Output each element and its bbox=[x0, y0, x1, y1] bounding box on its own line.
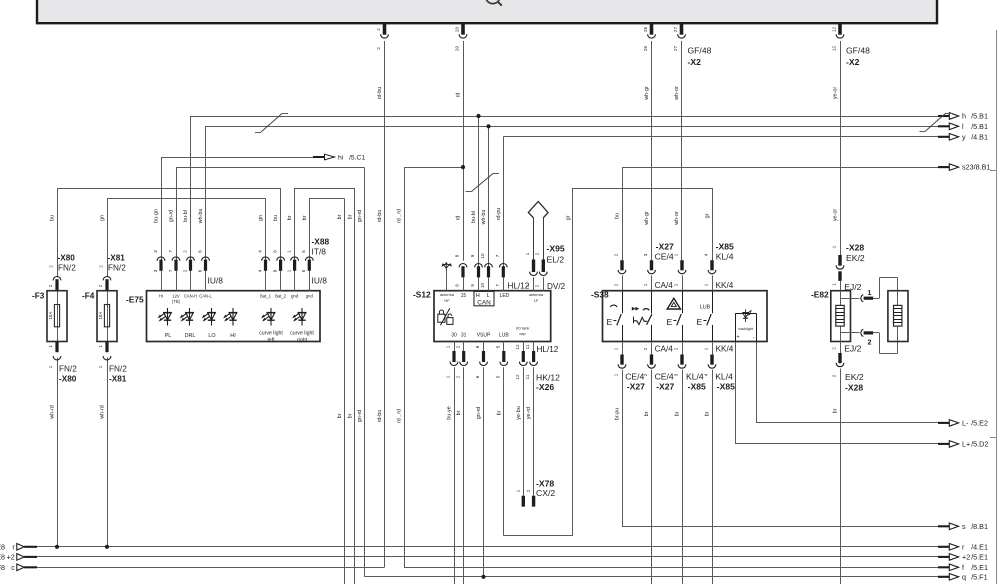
svg-text:wh-or: wh-or bbox=[674, 86, 680, 101]
svg-text:backlight: backlight bbox=[738, 327, 753, 331]
svg-text:-X85: -X85 bbox=[717, 381, 735, 391]
svg-text:-X95: -X95 bbox=[547, 244, 565, 254]
svg-text:7: 7 bbox=[495, 284, 500, 287]
svg-text:f: f bbox=[962, 563, 964, 572]
svg-text:27: 27 bbox=[673, 46, 678, 52]
svg-text:8: 8 bbox=[272, 250, 277, 253]
svg-text:h: h bbox=[962, 112, 966, 121]
svg-text:-X28: -X28 bbox=[845, 382, 863, 392]
svg-text:8: 8 bbox=[455, 254, 460, 257]
svg-text:br: br bbox=[347, 413, 353, 418]
svg-text:-X28: -X28 bbox=[846, 242, 864, 252]
svg-text:CA/4: CA/4 bbox=[655, 344, 674, 353]
svg-text:gn: gn bbox=[100, 215, 106, 221]
svg-text:gnd: gnd bbox=[291, 293, 299, 298]
svg-text:gnd: gnd bbox=[306, 293, 314, 298]
svg-text:1: 1 bbox=[868, 290, 872, 297]
svg-text:3: 3 bbox=[153, 250, 158, 253]
svg-text:10A: 10A bbox=[48, 312, 53, 320]
svg-text:/5.C1: /5.C1 bbox=[349, 155, 365, 162]
svg-text:br: br bbox=[337, 413, 343, 418]
svg-text:11: 11 bbox=[525, 344, 530, 349]
svg-text:30: 30 bbox=[451, 333, 457, 339]
svg-text:1: 1 bbox=[613, 373, 618, 376]
svg-text:1: 1 bbox=[673, 253, 678, 256]
svg-text:4: 4 bbox=[703, 253, 708, 256]
svg-text:-X80: -X80 bbox=[59, 375, 77, 384]
svg-text:bu-ye: bu-ye bbox=[447, 406, 453, 420]
svg-text:right: right bbox=[297, 338, 308, 344]
svg-text:12: 12 bbox=[515, 344, 520, 350]
svg-text:ye-bu: ye-bu bbox=[516, 406, 522, 420]
svg-text:CE/4: CE/4 bbox=[655, 372, 674, 382]
svg-text:gn-rd: gn-rd bbox=[169, 210, 175, 223]
svg-text:2: 2 bbox=[182, 269, 187, 272]
svg-text:IU/8: IU/8 bbox=[312, 276, 328, 286]
svg-text:L-: L- bbox=[962, 419, 969, 428]
svg-text:L: L bbox=[487, 293, 490, 299]
svg-text:DV/2: DV/2 bbox=[547, 282, 566, 291]
svg-text:2: 2 bbox=[182, 250, 187, 253]
svg-text:-E82: -E82 bbox=[811, 290, 829, 300]
svg-text:2: 2 bbox=[99, 265, 104, 268]
svg-text:/5.E2: /5.E2 bbox=[971, 419, 988, 428]
svg-text:hi: hi bbox=[338, 155, 344, 162]
svg-text:bu-bl: bu-bl bbox=[183, 210, 189, 222]
svg-text:HI: HI bbox=[230, 333, 235, 339]
svg-text:1: 1 bbox=[98, 365, 103, 368]
svg-text:/4.E1: /4.E1 bbox=[971, 542, 988, 551]
svg-text:2: 2 bbox=[98, 284, 103, 287]
svg-text:12: 12 bbox=[831, 46, 836, 52]
svg-text:/5.E1: /5.E1 bbox=[971, 563, 988, 572]
svg-text:Bat_2: Bat_2 bbox=[275, 293, 287, 298]
svg-text:EL/2: EL/2 bbox=[547, 255, 565, 265]
svg-text:5: 5 bbox=[301, 250, 306, 253]
svg-text:bu-gn: bu-gn bbox=[154, 209, 160, 223]
svg-text:-X2: -X2 bbox=[846, 57, 860, 67]
svg-text:2: 2 bbox=[673, 347, 678, 350]
svg-text:ye-rd: ye-rd bbox=[526, 407, 532, 419]
svg-text:1: 1 bbox=[703, 347, 708, 350]
svg-text:1: 1 bbox=[446, 375, 451, 378]
svg-text:1: 1 bbox=[643, 283, 648, 286]
svg-text:CE/4: CE/4 bbox=[625, 372, 644, 382]
svg-text:2: 2 bbox=[535, 284, 540, 287]
svg-text:-E75: -E75 bbox=[126, 294, 144, 304]
svg-text:2: 2 bbox=[455, 375, 460, 378]
svg-text:2: 2 bbox=[48, 284, 53, 287]
svg-text:H: H bbox=[476, 293, 480, 299]
svg-text:HI: HI bbox=[159, 293, 163, 298]
svg-text:curve light: curve light bbox=[290, 331, 314, 337]
svg-text:CE/4: CE/4 bbox=[655, 252, 674, 262]
svg-text:rd-bu: rd-bu bbox=[377, 87, 383, 100]
svg-text:+: + bbox=[736, 335, 739, 341]
svg-text:rd-bu: rd-bu bbox=[377, 410, 383, 423]
svg-text:L+: L+ bbox=[962, 440, 970, 449]
svg-text:6: 6 bbox=[197, 269, 202, 272]
svg-text:y: y bbox=[962, 132, 966, 141]
svg-text:2: 2 bbox=[832, 374, 837, 377]
svg-text:1: 1 bbox=[832, 283, 837, 286]
svg-text:br: br bbox=[287, 215, 293, 220]
svg-text:1: 1 bbox=[704, 283, 709, 286]
svg-text:2: 2 bbox=[535, 252, 540, 255]
svg-text:s23/8.B1: s23/8.B1 bbox=[962, 163, 990, 172]
svg-text:-X81: -X81 bbox=[109, 375, 127, 384]
svg-text:5: 5 bbox=[495, 345, 500, 348]
svg-text:l: l bbox=[962, 122, 964, 131]
svg-text:EJ/2: EJ/2 bbox=[844, 343, 861, 353]
svg-text:/4.B1: /4.B1 bbox=[971, 132, 988, 141]
svg-text:br: br bbox=[705, 411, 711, 416]
svg-text:/5.B1: /5.B1 bbox=[971, 112, 988, 121]
svg-text:wh-gr: wh-gr bbox=[644, 86, 650, 101]
svg-text:CX/2: CX/2 bbox=[536, 488, 555, 498]
svg-text:FN/2: FN/2 bbox=[58, 264, 76, 273]
svg-text:br-pu: br-pu bbox=[615, 408, 621, 421]
svg-text:2: 2 bbox=[832, 347, 837, 350]
svg-text:KL/4: KL/4 bbox=[715, 372, 733, 382]
svg-text:E8: E8 bbox=[0, 553, 5, 562]
svg-text:LO: LO bbox=[208, 333, 215, 339]
svg-text:EK/2: EK/2 bbox=[845, 372, 864, 382]
svg-text:1: 1 bbox=[613, 347, 618, 350]
svg-text:FN/2: FN/2 bbox=[109, 365, 127, 374]
svg-text:-X81: -X81 bbox=[108, 254, 126, 263]
svg-text:HK/12: HK/12 bbox=[536, 373, 560, 383]
svg-text:bu: bu bbox=[273, 215, 279, 221]
svg-text:12: 12 bbox=[515, 374, 520, 380]
svg-text:2: 2 bbox=[526, 489, 531, 492]
svg-text:20: 20 bbox=[454, 27, 459, 33]
svg-text:antenna: antenna bbox=[529, 292, 544, 297]
svg-text:-F3: -F3 bbox=[32, 292, 45, 301]
svg-text:wh-or: wh-or bbox=[674, 211, 680, 226]
svg-text:-X85: -X85 bbox=[716, 241, 734, 251]
svg-text:1: 1 bbox=[98, 345, 103, 348]
svg-text:4: 4 bbox=[703, 373, 708, 376]
svg-text:KL/4: KL/4 bbox=[716, 252, 734, 262]
svg-text:wh-bu: wh-bu bbox=[481, 210, 487, 226]
svg-text:cap: cap bbox=[519, 331, 525, 336]
svg-text:-X88: -X88 bbox=[312, 237, 330, 247]
svg-text:ye-or: ye-or bbox=[833, 87, 839, 99]
svg-text:KK/4: KK/4 bbox=[716, 344, 734, 353]
svg-text:2: 2 bbox=[674, 283, 679, 286]
svg-text:26: 26 bbox=[643, 27, 648, 33]
svg-text:-X27: -X27 bbox=[656, 241, 674, 251]
svg-text:7: 7 bbox=[168, 250, 173, 253]
svg-text:IT/8: IT/8 bbox=[312, 247, 327, 257]
svg-text:br: br bbox=[337, 214, 343, 219]
svg-text:wh-bu: wh-bu bbox=[198, 209, 204, 225]
svg-text:c: c bbox=[11, 563, 15, 572]
svg-text:rd-pu: rd-pu bbox=[496, 208, 502, 221]
svg-text:r: r bbox=[962, 542, 965, 551]
svg-text:I/O tank: I/O tank bbox=[516, 326, 530, 331]
svg-text:FN/2: FN/2 bbox=[59, 365, 77, 374]
svg-text:31: 31 bbox=[461, 333, 467, 339]
svg-text:E: E bbox=[697, 317, 703, 327]
svg-text:1: 1 bbox=[446, 345, 451, 348]
svg-text:gn-rd: gn-rd bbox=[357, 210, 363, 223]
svg-text:rd , rd: rd , rd bbox=[397, 209, 403, 223]
svg-text:4: 4 bbox=[257, 250, 262, 253]
svg-text:9: 9 bbox=[470, 284, 475, 287]
svg-text:9: 9 bbox=[470, 254, 475, 257]
svg-text:-S12: -S12 bbox=[413, 290, 431, 300]
svg-text:left: left bbox=[268, 338, 275, 344]
svg-text:rd: rd bbox=[456, 216, 462, 221]
svg-text:F8: F8 bbox=[0, 563, 5, 572]
svg-text:10: 10 bbox=[480, 253, 485, 259]
svg-text:1: 1 bbox=[286, 269, 291, 272]
svg-text:26: 26 bbox=[643, 46, 648, 52]
svg-text:8: 8 bbox=[272, 269, 277, 272]
svg-text:5: 5 bbox=[301, 269, 306, 272]
svg-text:2: 2 bbox=[868, 340, 872, 347]
svg-text:wh-rd: wh-rd bbox=[100, 405, 106, 419]
svg-text:2: 2 bbox=[643, 347, 648, 350]
svg-text:LUB: LUB bbox=[499, 333, 509, 339]
svg-text:r: r bbox=[12, 542, 15, 551]
svg-text:E: E bbox=[607, 317, 613, 327]
svg-text:Bat_1: Bat_1 bbox=[260, 293, 272, 298]
svg-text:2: 2 bbox=[376, 47, 381, 50]
svg-text:6: 6 bbox=[197, 250, 202, 253]
svg-text:CAN: CAN bbox=[477, 299, 491, 306]
svg-text:/5.B1: /5.B1 bbox=[971, 122, 988, 131]
svg-text:gr: gr bbox=[566, 215, 572, 220]
svg-text:CAN-L: CAN-L bbox=[199, 293, 212, 298]
svg-text:(TB): (TB) bbox=[172, 299, 181, 304]
svg-text:-X2: -X2 bbox=[688, 57, 702, 67]
svg-text:8: 8 bbox=[455, 284, 460, 287]
svg-text:bu-bl: bu-bl bbox=[471, 211, 477, 223]
svg-text:antenna: antenna bbox=[440, 292, 455, 297]
svg-text:-F4: -F4 bbox=[82, 292, 95, 301]
svg-text:VSUP: VSUP bbox=[477, 333, 491, 339]
svg-text:+2: +2 bbox=[7, 553, 15, 562]
svg-text:LUB: LUB bbox=[700, 304, 711, 310]
svg-text:27: 27 bbox=[673, 27, 678, 33]
svg-text:/5.D2: /5.D2 bbox=[971, 440, 988, 449]
svg-text:GF/48: GF/48 bbox=[688, 45, 712, 55]
svg-text:LF: LF bbox=[534, 298, 539, 303]
svg-text:gn: gn bbox=[258, 215, 264, 221]
svg-text:br: br bbox=[675, 411, 681, 416]
svg-text:PL: PL bbox=[165, 333, 172, 339]
svg-text:1: 1 bbox=[832, 245, 837, 248]
svg-text:CAN-H: CAN-H bbox=[184, 293, 197, 298]
svg-text:15: 15 bbox=[461, 293, 467, 299]
svg-text:2: 2 bbox=[376, 28, 381, 31]
svg-text:DRL: DRL bbox=[185, 333, 196, 339]
svg-text:br: br bbox=[302, 215, 308, 220]
svg-text:-: - bbox=[753, 335, 755, 341]
svg-text:rd , rd: rd , rd bbox=[397, 409, 403, 423]
svg-text:1: 1 bbox=[48, 345, 53, 348]
svg-text:7: 7 bbox=[495, 254, 500, 257]
svg-text:-X26: -X26 bbox=[536, 382, 554, 392]
svg-text:q: q bbox=[962, 572, 966, 581]
svg-text:10: 10 bbox=[480, 283, 485, 289]
svg-text:rd-bu: rd-bu bbox=[377, 210, 383, 223]
svg-text:E: E bbox=[667, 317, 673, 327]
svg-text:2: 2 bbox=[455, 345, 460, 348]
svg-text:1: 1 bbox=[525, 284, 530, 287]
svg-text:br: br bbox=[347, 214, 353, 219]
svg-text:gn-rd: gn-rd bbox=[476, 407, 482, 420]
svg-text:bu: bu bbox=[615, 213, 621, 219]
svg-text:bu: bu bbox=[50, 215, 56, 221]
svg-text:gr: gr bbox=[705, 213, 711, 218]
svg-text:-X80: -X80 bbox=[58, 254, 76, 263]
svg-text:/5.E1: /5.E1 bbox=[971, 553, 988, 562]
svg-text:/8.B1: /8.B1 bbox=[971, 522, 988, 531]
svg-text:5: 5 bbox=[495, 375, 500, 378]
svg-text:-X27: -X27 bbox=[656, 381, 674, 391]
svg-text:HL/12: HL/12 bbox=[537, 345, 559, 354]
svg-text:E8: E8 bbox=[0, 542, 5, 551]
svg-text:curve light: curve light bbox=[259, 331, 283, 337]
svg-text:1: 1 bbox=[286, 250, 291, 253]
svg-text:KK/4: KK/4 bbox=[716, 281, 734, 290]
svg-text:3: 3 bbox=[153, 269, 158, 272]
svg-text:gn-rd: gn-rd bbox=[357, 410, 363, 423]
svg-text:-S38: -S38 bbox=[591, 290, 609, 300]
svg-text:20: 20 bbox=[454, 46, 459, 52]
svg-text:3: 3 bbox=[643, 253, 648, 256]
svg-text:br: br bbox=[644, 411, 650, 416]
svg-text:rd: rd bbox=[456, 93, 462, 98]
svg-text:IU/8: IU/8 bbox=[208, 276, 224, 286]
svg-text:3: 3 bbox=[673, 373, 678, 376]
svg-text:12: 12 bbox=[831, 27, 836, 33]
svg-text:ye-or: ye-or bbox=[833, 209, 839, 221]
svg-text:6: 6 bbox=[475, 375, 480, 378]
svg-text:10A: 10A bbox=[98, 312, 103, 320]
svg-text:KL/4: KL/4 bbox=[686, 372, 704, 382]
svg-text:HF: HF bbox=[444, 298, 450, 303]
svg-text:2: 2 bbox=[613, 253, 618, 256]
svg-text:GF/48: GF/48 bbox=[846, 45, 870, 55]
svg-text:/5.F1: /5.F1 bbox=[971, 572, 987, 581]
svg-text:11: 11 bbox=[525, 374, 530, 379]
svg-text:-X85: -X85 bbox=[688, 381, 706, 391]
svg-text:FN/2: FN/2 bbox=[108, 264, 126, 273]
svg-text:wh-gr: wh-gr bbox=[644, 211, 650, 226]
svg-text:-X27: -X27 bbox=[627, 381, 645, 391]
svg-text:br: br bbox=[833, 408, 839, 413]
svg-text:12V: 12V bbox=[172, 293, 180, 298]
svg-text:4: 4 bbox=[257, 269, 262, 272]
svg-text:EK/2: EK/2 bbox=[846, 253, 865, 263]
svg-text:LED: LED bbox=[500, 293, 510, 299]
svg-text:br: br bbox=[496, 410, 502, 415]
svg-text:2: 2 bbox=[49, 265, 54, 268]
svg-text:CA/4: CA/4 bbox=[655, 281, 674, 290]
svg-text:6: 6 bbox=[475, 345, 480, 348]
svg-text:1: 1 bbox=[48, 365, 53, 368]
svg-text:wh-rd: wh-rd bbox=[50, 405, 56, 419]
svg-text:br: br bbox=[456, 410, 462, 415]
svg-text:1: 1 bbox=[516, 489, 521, 492]
svg-text:s: s bbox=[962, 522, 966, 531]
svg-text:7: 7 bbox=[168, 269, 173, 272]
svg-text:2: 2 bbox=[614, 283, 619, 286]
svg-text:1: 1 bbox=[525, 252, 530, 255]
svg-text:-X78: -X78 bbox=[536, 478, 554, 488]
svg-text:+2: +2 bbox=[962, 553, 970, 562]
